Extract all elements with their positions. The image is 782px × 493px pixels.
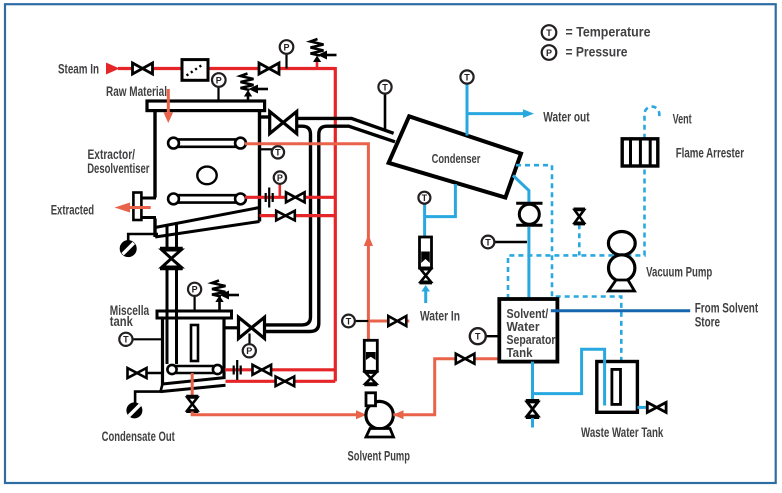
miscella tank conveyor — [167, 365, 222, 374]
svg-text:T: T — [346, 316, 352, 326]
steam supply line (red, y=68.5) — [118, 67, 335, 70]
condensate line condenser to separator (cyan) — [513, 176, 529, 300]
svg-text:T: T — [475, 332, 481, 342]
discharge hourglass valve — [160, 249, 183, 269]
svg-text:Condensate Out: Condensate Out — [102, 428, 175, 444]
svg-text:Waste Water Tank: Waste Water Tank — [581, 424, 663, 440]
legend P = Pressure — [542, 44, 628, 60]
svg-text:Separator: Separator — [507, 333, 556, 347]
svg-text:P: P — [283, 42, 289, 52]
hourglass valve on vent stub — [574, 209, 585, 224]
svg-text:Water In: Water In — [420, 308, 460, 324]
flame arrester — [622, 139, 658, 166]
svg-text:P: P — [216, 75, 222, 85]
inline break symbol on conveyor-2 line — [266, 188, 273, 208]
P indicator on conveyor-2 line — [274, 171, 286, 197]
legend T = Temperature — [542, 24, 651, 40]
extractor left wall — [153, 111, 156, 198]
miscella to pump line (orange, y=414.7) — [192, 412, 358, 415]
svg-text:T: T — [123, 335, 129, 345]
waste tank outlet line (cyan) — [637, 406, 647, 409]
svg-text:T: T — [275, 148, 281, 158]
vapour duct to condenser — [297, 118, 395, 141]
relief valve RV1 on extractor lid — [241, 74, 269, 103]
svg-text:Extracted: Extracted — [51, 202, 94, 218]
vapour line condenser to waste tank (dashed cyan) — [516, 165, 621, 361]
svg-text:P: P — [546, 48, 552, 58]
Steam In flow arrow — [106, 63, 120, 75]
svg-text:T: T — [422, 193, 428, 203]
svg-text:P: P — [192, 285, 198, 295]
hourglass valve under solvent rotameter — [364, 371, 377, 384]
flow arrow into pump right — [393, 410, 404, 419]
svg-text:Flame Arrester: Flame Arrester — [676, 145, 745, 161]
big vapour valve on extractor — [270, 112, 297, 134]
svg-text:tank: tank — [110, 313, 133, 329]
extractor drain trap circle — [120, 234, 158, 257]
Raw Material feed arrow — [164, 89, 174, 123]
T indicator on condensate line — [482, 236, 527, 249]
solvent feed line to conveyor 1 (orange) — [245, 144, 368, 341]
cooling water inlet line (cyan) — [425, 184, 456, 237]
sample branch line (orange, y=321) — [368, 320, 409, 323]
valve on miscella tank left nozzle — [128, 368, 163, 378]
svg-text:Vent: Vent — [673, 111, 692, 127]
separator drain line (cyan) — [531, 394, 534, 400]
separator to pump line (orange) — [393, 359, 499, 415]
separator water line to waste tank (cyan) — [533, 349, 605, 405]
Solvent/Water Separator Tank — [499, 299, 557, 362]
vapour branch duct down to miscella tank — [264, 126, 327, 331]
P indicator above miscella tank — [188, 283, 201, 312]
miscella drain hourglass valve — [186, 396, 198, 411]
T indicator on separator tank — [470, 328, 500, 344]
flow arrow up on solvent riser — [364, 235, 373, 247]
From Solvent Store label — [695, 300, 759, 330]
extracted outlet nozzle + flange — [133, 193, 156, 221]
Miscella tank label — [110, 302, 150, 329]
conveyor tray 2 in extractor — [168, 194, 246, 205]
big vapour valve on miscella tank — [226, 317, 265, 338]
solvent pump — [366, 393, 394, 437]
separator drain stub (cyan) — [531, 418, 534, 428]
solvent rotameter sight glass — [364, 340, 377, 371]
miscella tank left wall — [161, 318, 164, 385]
svg-text:Solvent Pump: Solvent Pump — [348, 448, 411, 464]
svg-text:= Pressure: = Pressure — [566, 44, 628, 60]
P indicator under miscella vapour duct — [243, 334, 256, 358]
valve on separator-pump line — [456, 354, 475, 364]
T indicator on miscella tank — [119, 333, 161, 346]
valve V1 on steam line — [133, 63, 153, 74]
T indicator on water inlet — [418, 192, 430, 204]
extractor lid — [147, 101, 265, 111]
Water In arrow — [421, 285, 430, 303]
T indicator on extractor wall — [260, 146, 285, 158]
manway circle in extractor — [197, 167, 216, 185]
valve V2 on steam line — [259, 63, 279, 74]
svg-text:Raw Material: Raw Material — [106, 83, 167, 99]
relief valve RV2 on steam line — [311, 39, 337, 69]
valve on conveyor-2 steam line — [286, 192, 305, 202]
hourglass valve on separator drain — [526, 401, 539, 418]
vacuum pump — [608, 232, 635, 292]
svg-text:Solvent/: Solvent/ — [507, 307, 549, 321]
svg-text:P: P — [277, 173, 283, 183]
svg-text:Water: Water — [507, 320, 540, 334]
miscella tank right wall — [222, 318, 225, 379]
T indicator above condenser — [460, 70, 473, 83]
svg-text:T: T — [464, 72, 470, 82]
vent stub valve line (dashed cyan) — [578, 224, 581, 255]
steam header vertical (red, x=335.3) — [334, 67, 337, 381]
svg-text:= Temperature: = Temperature — [566, 24, 651, 40]
svg-text:Desolventiser: Desolventiser — [87, 160, 150, 176]
flow meter on condensate line — [516, 203, 542, 225]
valve on miscella steam line — [253, 365, 272, 375]
svg-text:Condenser: Condenser — [432, 151, 481, 166]
svg-text:Store: Store — [695, 314, 720, 330]
extractor sloped bottom chute — [155, 208, 260, 238]
extractor right wall — [258, 111, 261, 222]
svg-text:P: P — [246, 346, 252, 356]
svg-text:Tank: Tank — [507, 346, 533, 360]
steam line from conveyor 2 (red, y=197.3) — [245, 196, 335, 199]
hourglass valve under water rotameter — [420, 268, 433, 283]
svg-text:Vacuum Pump: Vacuum Pump — [646, 263, 712, 279]
T indicator on vapour duct — [378, 80, 391, 129]
From Solvent Store line (navy) — [551, 309, 690, 312]
vent line (dashed cyan) — [645, 107, 660, 139]
pressure indicator P on steam line — [280, 40, 294, 68]
steam trap box with dotted diagonal — [182, 60, 208, 81]
steam jacket line (red, y=215.6) — [260, 214, 336, 217]
inline break symbol on miscella line — [234, 360, 241, 380]
conveyor tray 1 in extractor — [168, 138, 246, 149]
relief valve RV3 on miscella tank — [212, 281, 239, 312]
extractor left wall lower — [153, 219, 156, 238]
water inlet rotameter — [420, 237, 432, 268]
cooling water outlet riser (cyan) — [466, 84, 469, 136]
waste water tank — [597, 362, 638, 413]
Extractor/Desolventiser label — [87, 146, 150, 176]
valve on lower steam return — [276, 377, 295, 387]
svg-text:Water out: Water out — [543, 109, 590, 125]
svg-text:T: T — [546, 28, 552, 38]
condensate trap circle — [126, 392, 161, 419]
Extracted flow arrow — [115, 203, 151, 213]
valve on waste tank outlet — [647, 402, 666, 412]
extractor discharge pipe — [167, 222, 177, 309]
svg-text:T: T — [485, 237, 491, 247]
vapour nozzle to big valve — [260, 115, 271, 118]
discharge pipe into miscella tank — [167, 309, 177, 364]
miscella drain line (orange) — [191, 373, 194, 396]
Water out line with arrow — [467, 109, 534, 118]
condenser — [389, 116, 521, 197]
svg-text:T: T — [382, 82, 388, 92]
miscella tank top — [157, 311, 232, 318]
valve on jacket steam line — [276, 211, 295, 221]
flow arrow into pump left — [356, 410, 367, 419]
T indicator on solvent riser — [342, 315, 368, 328]
miscella tank sloped bottom — [161, 378, 226, 392]
miscella steam line (red, y=369.8) — [225, 368, 335, 371]
valve on sample branch — [388, 316, 406, 326]
P indicator above extractor lid — [212, 73, 226, 101]
miscella tank sight glass — [191, 325, 198, 361]
svg-text:Steam In: Steam In — [58, 61, 99, 77]
vapour header (dashed cyan) — [508, 166, 645, 299]
lower steam return line (red, y=381.3) — [226, 380, 336, 383]
